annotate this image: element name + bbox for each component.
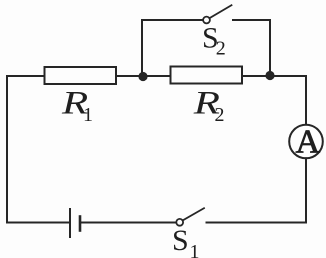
wire right vertical to ammeter xyxy=(305,76,307,126)
battery cell xyxy=(70,209,80,237)
wire ammeter to bottom corner xyxy=(305,158,307,222)
wire battery to switch S1 xyxy=(80,222,176,224)
wire S2 branch top right segment xyxy=(233,19,270,21)
node A junction dot xyxy=(138,72,147,81)
wire S2 branch left vertical xyxy=(141,20,143,76)
ammeter A xyxy=(289,125,323,159)
wire switch S1 to bottom right corner xyxy=(207,222,307,224)
label S1 xyxy=(172,224,200,258)
wire S2 branch right vertical xyxy=(269,20,271,76)
svg-text:2: 2 xyxy=(215,104,225,126)
wire node A to R2 xyxy=(143,75,171,77)
label S2 xyxy=(202,22,226,60)
label R1 xyxy=(61,85,93,126)
resistor R1 xyxy=(45,67,117,84)
label R2 xyxy=(193,85,225,126)
svg-text:2: 2 xyxy=(216,37,226,59)
resistor R2 xyxy=(171,67,243,84)
wire node B to right corner xyxy=(270,75,306,77)
svg-text:S: S xyxy=(172,224,189,257)
wire R1 to node A xyxy=(116,75,143,77)
svg-text:1: 1 xyxy=(83,104,93,126)
wire main left segment xyxy=(7,75,45,77)
switch S2 xyxy=(203,5,231,23)
switch S1 xyxy=(176,208,204,226)
svg-text:A: A xyxy=(296,123,321,160)
wire R2 to node B xyxy=(242,75,270,77)
wire S2 branch top left segment xyxy=(142,19,203,21)
wire left vertical xyxy=(6,76,8,223)
wire bottom left segment xyxy=(7,222,70,224)
svg-text:1: 1 xyxy=(190,241,200,258)
node B junction dot xyxy=(265,71,274,80)
